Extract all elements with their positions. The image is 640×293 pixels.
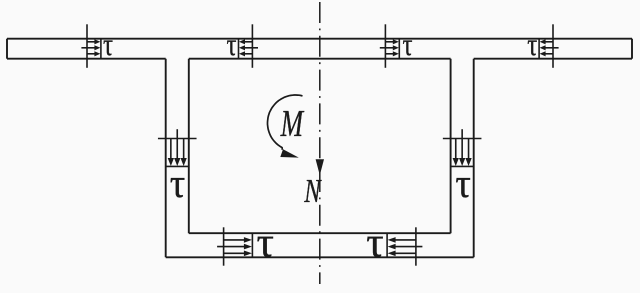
- face line: [386, 233, 388, 257]
- bottom flange outline: [166, 233, 474, 257]
- shear arrows: [168, 129, 187, 166]
- svg-text:τ: τ: [103, 27, 113, 63]
- left web walls: [166, 59, 189, 258]
- shear symbol tau7 (bottom flange left): [217, 218, 274, 266]
- face line: [251, 233, 253, 257]
- moment arrow M (curved): [268, 95, 303, 158]
- shear arrows: [388, 237, 423, 256]
- svg-text:τ: τ: [257, 218, 274, 266]
- svg-text:τ: τ: [170, 160, 186, 207]
- shear symbol tau2 (top flange left of center): [227, 24, 259, 68]
- cut line: [552, 24, 554, 68]
- face line: [238, 39, 240, 59]
- shear symbol tau8 (bottom flange right): [366, 218, 422, 266]
- shear arrows: [239, 39, 258, 56]
- cut line: [443, 138, 482, 140]
- shear symbol tau4 (top flange right overhang): [527, 24, 558, 68]
- shear arrows: [453, 129, 472, 166]
- svg-text:τ: τ: [403, 27, 413, 63]
- cut line: [415, 227, 417, 265]
- shear arrows: [540, 39, 559, 56]
- svg-text:τ: τ: [527, 27, 537, 63]
- face line: [166, 165, 189, 167]
- svg-text:τ: τ: [455, 160, 471, 207]
- axial force arrowhead N: [316, 159, 324, 175]
- cut line: [223, 227, 225, 265]
- shear arrows: [217, 237, 252, 256]
- right web walls: [451, 59, 474, 258]
- cut line: [251, 24, 253, 68]
- cut line: [384, 24, 386, 68]
- shear symbol tau3 (top flange right of center): [380, 24, 413, 68]
- svg-text:N: N: [303, 173, 322, 210]
- shear symbol tau5 (left web): [158, 129, 197, 206]
- shear symbol tau1 (top flange left overhang): [81, 24, 113, 68]
- shear arrows: [380, 39, 399, 56]
- svg-text:τ: τ: [227, 27, 237, 63]
- centerline (dash-dot axis): [319, 2, 321, 284]
- face line: [451, 165, 474, 167]
- svg-text:τ: τ: [366, 218, 383, 266]
- cut line: [86, 24, 88, 68]
- shear symbol tau6 (right web): [443, 129, 482, 206]
- svg-text:M: M: [280, 102, 305, 145]
- face line: [538, 39, 540, 59]
- cut line: [158, 138, 197, 140]
- shear arrows: [81, 39, 100, 56]
- face line: [398, 39, 400, 59]
- top flange outline: [7, 39, 632, 59]
- face line: [100, 39, 102, 59]
